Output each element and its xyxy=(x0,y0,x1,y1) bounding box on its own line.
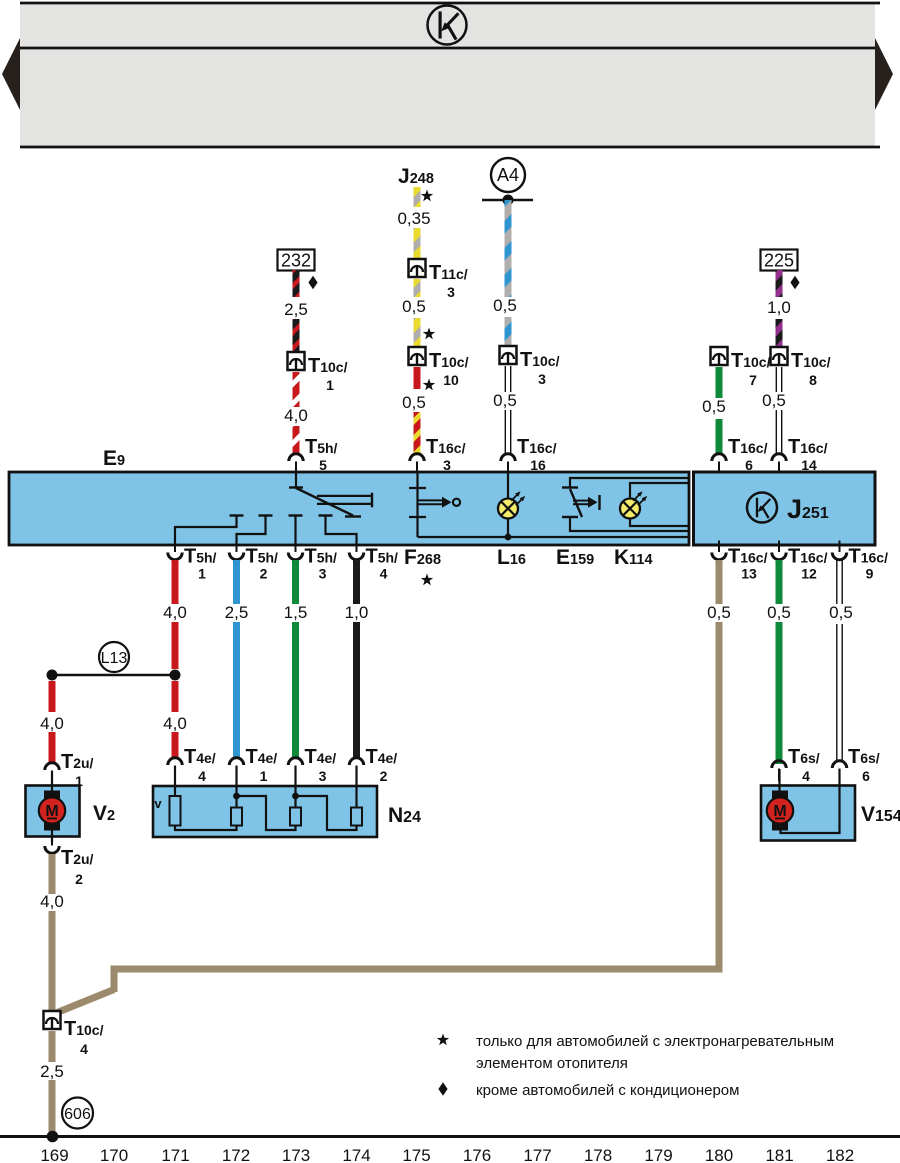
pin T5h/3 xyxy=(288,541,302,560)
svg-text:T5h/: T5h/ xyxy=(184,546,217,568)
wire purple/black from node 225 xyxy=(776,270,783,297)
svg-text:181: 181 xyxy=(765,1146,793,1163)
node 232 label box xyxy=(278,250,315,271)
svg-text:232: 232 xyxy=(281,251,311,271)
svg-text:4,0: 4,0 xyxy=(163,714,187,733)
svg-text:M: M xyxy=(773,803,786,820)
svg-text:A4: A4 xyxy=(497,165,519,185)
svg-text:T16c/: T16c/ xyxy=(517,436,557,458)
blower motor V2 box xyxy=(26,786,80,837)
svg-text:606: 606 xyxy=(64,1106,91,1123)
lamp K114 xyxy=(620,491,647,518)
junction N24 pin1 xyxy=(233,793,240,800)
N24 fuse bottom link xyxy=(175,826,237,831)
pin T6s/6 xyxy=(832,761,846,781)
K symbol in J251 xyxy=(747,493,777,523)
band left arrow xyxy=(2,38,20,110)
svg-text:кроме автомобилей с кондиционе: кроме автомобилей с кондиционером xyxy=(476,1082,739,1099)
svg-text:T2u/: T2u/ xyxy=(61,847,94,869)
diamond marker (кроме) xyxy=(790,276,799,290)
svg-text:8: 8 xyxy=(809,372,817,388)
svg-text:T4e/: T4e/ xyxy=(366,746,398,768)
K symbol xyxy=(428,6,467,45)
svg-text:T16c/: T16c/ xyxy=(728,436,768,458)
white wire 0,5 xyxy=(776,367,781,453)
N24 resistor R2 xyxy=(231,808,242,826)
svg-text:T16c/: T16c/ xyxy=(849,546,889,568)
N24 pin stub 1 xyxy=(235,766,237,808)
svg-text:178: 178 xyxy=(584,1146,612,1163)
pin T16c/12 xyxy=(772,541,786,560)
svg-text:T10c/: T10c/ xyxy=(520,349,560,371)
E159 bottom contact xyxy=(562,516,578,518)
ground splice 606 circle xyxy=(62,1098,93,1129)
svg-text:2,5: 2,5 xyxy=(284,300,308,319)
svg-text:N24: N24 xyxy=(388,804,421,827)
svg-text:172: 172 xyxy=(222,1146,250,1163)
wire red xyxy=(49,732,56,764)
bus bar band xyxy=(20,3,875,148)
wire green xyxy=(716,419,723,455)
svg-text:0,5: 0,5 xyxy=(829,603,853,622)
wire green to T6s/4 xyxy=(776,622,783,764)
wire red/white 4,0 lower xyxy=(293,426,300,455)
N24 resistor R3 xyxy=(290,808,301,826)
V2 motor stub bottom xyxy=(51,829,53,843)
wire red/white 4,0 upper xyxy=(293,372,300,407)
node A4 tap line xyxy=(482,199,533,202)
N24 link pin1 to R3 bottom xyxy=(237,796,296,830)
svg-text:0,5: 0,5 xyxy=(493,391,517,410)
svg-text:179: 179 xyxy=(644,1146,672,1163)
svg-text:2: 2 xyxy=(75,871,83,887)
wire brown 0,5 from T16c/13 xyxy=(716,560,723,604)
node A4 xyxy=(491,158,525,192)
svg-text:элементом отопителя: элементом отопителя xyxy=(476,1055,628,1072)
svg-text:0,5: 0,5 xyxy=(707,603,731,622)
svg-text:0,35: 0,35 xyxy=(397,209,430,228)
wire brown 4,0 from T2u/2 xyxy=(49,854,56,894)
wire yellow/gray 0,5 xyxy=(414,318,421,347)
svg-text:3: 3 xyxy=(319,566,327,582)
wire red xyxy=(414,367,421,389)
wire red/yellow 0,5 xyxy=(414,412,421,455)
pin T16c/14 xyxy=(772,454,786,474)
svg-text:171: 171 xyxy=(161,1146,189,1163)
legend star xyxy=(437,1034,449,1046)
pin T16c/16 xyxy=(501,454,515,474)
svg-text:174: 174 xyxy=(342,1146,370,1163)
wire red 4,0 xyxy=(172,622,179,669)
wire red 4,0 to T4e/4 xyxy=(172,681,179,712)
svg-text:13: 13 xyxy=(741,566,757,582)
wire red xyxy=(172,732,179,759)
svg-text:10: 10 xyxy=(443,372,459,388)
wire brown horizontal run xyxy=(111,966,723,973)
E9 contact 1 xyxy=(230,514,244,516)
star marker under F268 xyxy=(421,574,433,586)
svg-text:2: 2 xyxy=(260,566,268,582)
band right arrow xyxy=(875,38,893,110)
connector T10c/3 xyxy=(500,346,517,364)
N24 resistor R4 xyxy=(351,808,362,826)
connector T10c/10 xyxy=(409,347,426,365)
pin T2u/2 xyxy=(45,834,59,853)
connector T10c/8 xyxy=(771,347,788,365)
svg-text:T10c/: T10c/ xyxy=(64,1018,104,1040)
lamp L16 xyxy=(498,491,525,518)
svg-text:6: 6 xyxy=(862,768,870,784)
N24 thermal fuse xyxy=(170,796,181,826)
svg-text:1,5: 1,5 xyxy=(284,603,308,622)
wire brown diagonal to T10c/4 xyxy=(56,990,114,1014)
junction left of L13 xyxy=(47,670,58,681)
svg-text:4,0: 4,0 xyxy=(40,714,64,733)
V154 motor stub top xyxy=(778,769,780,792)
svg-text:L13: L13 xyxy=(101,650,128,667)
wire blue 2,5 from T5h/2 xyxy=(233,560,240,604)
star marker xyxy=(421,190,433,202)
svg-text:T16c/: T16c/ xyxy=(788,546,828,568)
svg-text:3: 3 xyxy=(538,371,546,387)
svg-text:7: 7 xyxy=(749,372,757,388)
ground junction at 169 xyxy=(47,1131,59,1143)
svg-text:0,5: 0,5 xyxy=(767,603,791,622)
svg-text:T4e/: T4e/ xyxy=(184,746,216,768)
pin T4e/2 xyxy=(349,758,363,778)
connector T10c/4 xyxy=(44,1011,61,1029)
white wire 0,5 xyxy=(505,366,510,453)
wire brown 4,0 xyxy=(49,911,56,1011)
L16 stem xyxy=(507,473,509,499)
svg-text:4: 4 xyxy=(380,566,388,582)
svg-text:1: 1 xyxy=(198,566,206,582)
svg-text:v: v xyxy=(154,796,162,811)
svg-text:2,5: 2,5 xyxy=(225,603,249,622)
wire blue 2,5 xyxy=(233,622,240,758)
legend diamond xyxy=(438,1082,447,1096)
wire red 4,0 from T5h/1 xyxy=(172,560,179,604)
E9 contact 4 xyxy=(319,514,333,516)
pin T5h/5 xyxy=(289,454,303,474)
resistor pack N24 box xyxy=(153,786,377,837)
fuse/switch F268 xyxy=(416,473,418,537)
svg-text:E159: E159 xyxy=(556,546,594,569)
E9 rotary switch common contact xyxy=(295,473,297,488)
photo sensor E159 top line xyxy=(570,478,689,488)
pin T16c/13 xyxy=(712,541,726,560)
svg-text:T16c/: T16c/ xyxy=(426,436,466,458)
svg-text:T4e/: T4e/ xyxy=(246,746,278,768)
N24 pin stub 2 xyxy=(355,766,357,808)
junction N24 pin3 xyxy=(292,793,299,800)
current track rail xyxy=(0,1135,900,1138)
svg-text:V154: V154 xyxy=(861,803,900,826)
pin T5h/4 xyxy=(349,541,363,560)
pin T5h/1 xyxy=(168,541,182,560)
wire green 1,5 xyxy=(292,622,299,758)
svg-text:9: 9 xyxy=(866,566,874,582)
E9 switch throw lines xyxy=(317,495,372,497)
svg-text:1,0: 1,0 xyxy=(345,603,369,622)
connector T10c/7 xyxy=(711,347,728,365)
svg-text:T10c/: T10c/ xyxy=(429,350,469,372)
svg-text:0,5: 0,5 xyxy=(702,397,726,416)
E159 lever xyxy=(570,489,582,517)
svg-text:3: 3 xyxy=(319,768,327,784)
pin T16c/3 xyxy=(410,454,424,474)
N24 link pin3 to R4 bottom xyxy=(296,796,357,830)
connector T10c/1 xyxy=(288,352,305,370)
svg-text:T5h/: T5h/ xyxy=(246,546,279,568)
wire black 1,0 xyxy=(353,622,360,758)
wire red 4,0 to V2 xyxy=(49,681,56,712)
wire brown to ground 169 xyxy=(49,1080,56,1133)
svg-text:169: 169 xyxy=(40,1146,68,1163)
svg-text:T5h/: T5h/ xyxy=(305,436,338,458)
svg-text:T10c/: T10c/ xyxy=(791,350,831,372)
switch unit E9 box xyxy=(9,472,689,545)
fresh air blower V154 box xyxy=(761,786,855,841)
svg-text:4,0: 4,0 xyxy=(40,892,64,911)
svg-text:E9: E9 xyxy=(103,447,125,470)
wire green 0,5 xyxy=(716,367,723,398)
svg-text:F268: F268 xyxy=(404,546,441,569)
white wire 0,5 from T16c/9 xyxy=(837,560,842,762)
wire gray/blue 0,5 xyxy=(505,200,512,297)
splice L13 circle xyxy=(99,642,129,672)
wire gray/blue xyxy=(505,317,512,346)
pin T2u/1 xyxy=(45,763,59,783)
junction L16 to bus xyxy=(505,534,512,541)
E9 switch lever xyxy=(296,488,353,516)
wire yellow/gray 0,35 xyxy=(414,228,421,259)
svg-text:4: 4 xyxy=(802,768,810,784)
wire black/red from node 232 xyxy=(293,270,300,297)
svg-text:173: 173 xyxy=(282,1146,310,1163)
svg-text:176: 176 xyxy=(463,1146,491,1163)
pin T6s/4 xyxy=(772,761,786,781)
svg-text:L16: L16 xyxy=(497,546,526,569)
N24 pin stub 4 xyxy=(174,766,176,796)
svg-text:только для автомобилей с элект: только для автомобилей с электронагреват… xyxy=(476,1033,834,1050)
diamond marker (кроме) xyxy=(308,276,317,290)
E9 bottom internal bus xyxy=(418,536,690,538)
K114 top line xyxy=(630,483,689,499)
svg-text:V2: V2 xyxy=(93,802,115,825)
wire yellow/gray xyxy=(414,279,421,297)
svg-text:T16c/: T16c/ xyxy=(728,546,768,568)
junction right of L13 xyxy=(170,670,181,681)
svg-text:M: M xyxy=(45,803,58,820)
svg-text:0,5: 0,5 xyxy=(493,296,517,315)
svg-text:180: 180 xyxy=(705,1146,733,1163)
pin T4e/1 xyxy=(229,758,243,778)
svg-text:K114: K114 xyxy=(614,546,653,569)
svg-text:T6s/: T6s/ xyxy=(848,746,880,768)
svg-text:T4e/: T4e/ xyxy=(305,746,337,768)
svg-text:1,0: 1,0 xyxy=(767,298,791,317)
E159 arrow to receiver xyxy=(573,500,588,502)
V154 internal wire from T6s/6 xyxy=(781,769,840,833)
svg-text:0,5: 0,5 xyxy=(402,393,426,412)
motor symbol V154 xyxy=(767,791,793,831)
wire purple/black 1,0 xyxy=(776,319,783,347)
wire brown long down xyxy=(716,622,723,969)
svg-text:12: 12 xyxy=(801,566,817,582)
wire green 0,5 from T16c/12 xyxy=(776,560,783,604)
svg-text:170: 170 xyxy=(100,1146,128,1163)
svg-text:1: 1 xyxy=(260,768,268,784)
svg-text:0,5: 0,5 xyxy=(402,297,426,316)
wire black/red 2,5 xyxy=(293,319,300,352)
control unit J251 box xyxy=(694,472,876,545)
svg-text:175: 175 xyxy=(402,1146,430,1163)
svg-text:T2u/: T2u/ xyxy=(61,751,94,773)
svg-text:225: 225 xyxy=(764,251,794,271)
E9 contact 2 xyxy=(259,514,273,516)
pin T16c/9 xyxy=(832,541,846,560)
svg-text:T5h/: T5h/ xyxy=(305,546,338,568)
K114 bottom line xyxy=(630,519,689,527)
N24 pin stub 3 xyxy=(294,766,296,808)
svg-text:4,0: 4,0 xyxy=(163,603,187,622)
star marker xyxy=(423,328,435,340)
pin T5h/2 xyxy=(229,541,243,560)
connector T11c/3 xyxy=(409,259,426,277)
wire yellow/gray from J248 xyxy=(414,187,421,207)
svg-text:4: 4 xyxy=(80,1041,88,1057)
svg-text:T11c/: T11c/ xyxy=(429,262,468,284)
splice L13 horizontal wire xyxy=(52,674,175,677)
svg-text:J248: J248 xyxy=(398,165,434,188)
svg-text:1: 1 xyxy=(326,377,334,393)
star marker xyxy=(423,379,435,391)
svg-text:2: 2 xyxy=(380,768,388,784)
pin T4e/3 xyxy=(288,758,302,778)
wire brown 2,5 xyxy=(49,1031,56,1062)
svg-text:T10c/: T10c/ xyxy=(308,355,348,377)
junction on A4 line xyxy=(503,195,514,206)
svg-text:182: 182 xyxy=(826,1146,854,1163)
svg-text:T16c/: T16c/ xyxy=(788,436,828,458)
svg-text:3: 3 xyxy=(447,284,455,300)
svg-text:4,0: 4,0 xyxy=(284,406,308,425)
svg-text:4: 4 xyxy=(198,768,206,784)
wire black 1,0 from T5h/4 xyxy=(353,560,360,604)
svg-text:T5h/: T5h/ xyxy=(366,546,399,568)
svg-text:T6s/: T6s/ xyxy=(788,746,820,768)
wire brown corner jog xyxy=(111,969,118,992)
wire green 1,5 from T5h/3 xyxy=(292,560,299,604)
pin T4e/4 xyxy=(168,758,182,778)
svg-text:2,5: 2,5 xyxy=(40,1062,64,1081)
pin T16c/6 xyxy=(712,454,726,474)
svg-text:177: 177 xyxy=(523,1146,551,1163)
motor symbol V2 xyxy=(39,791,65,831)
svg-text:T10c/: T10c/ xyxy=(731,350,771,372)
V2 motor stub top xyxy=(51,771,53,792)
svg-text:0,5: 0,5 xyxy=(762,391,786,410)
node 225 label box xyxy=(761,250,798,271)
E9 contact 3 xyxy=(289,514,303,516)
